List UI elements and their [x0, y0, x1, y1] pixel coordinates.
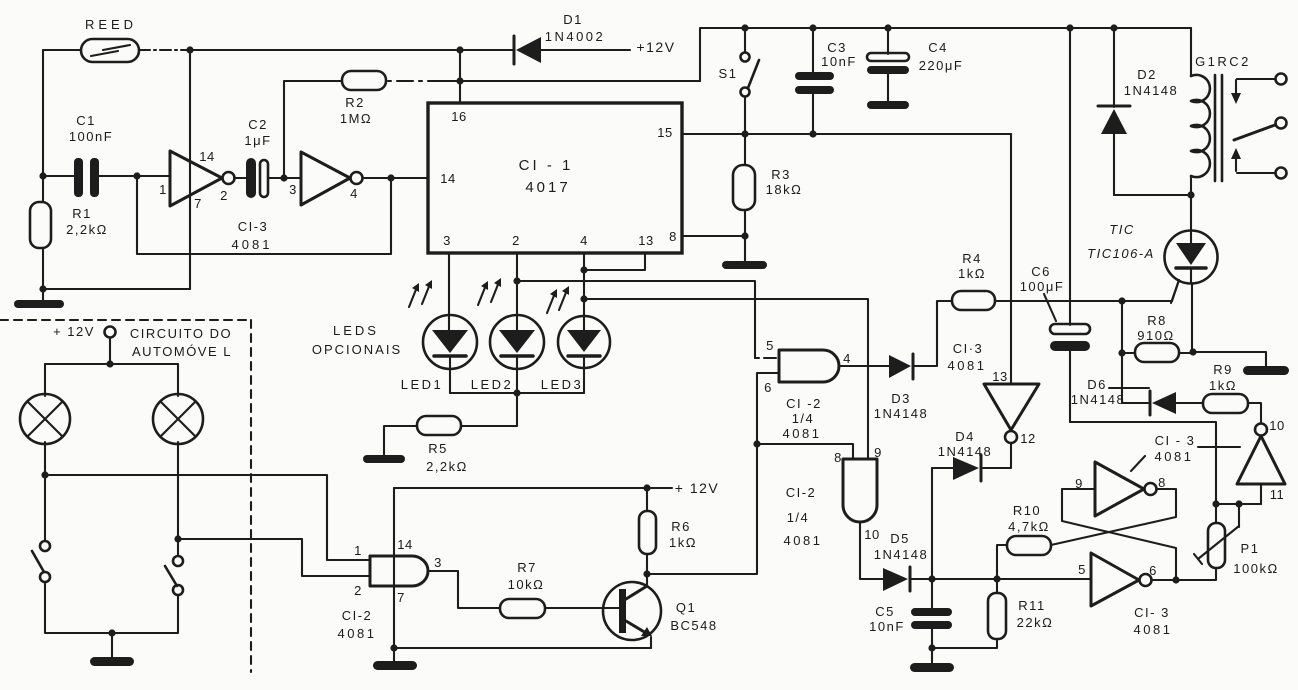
- svg-text:18kΩ: 18kΩ: [766, 182, 803, 197]
- svg-text:LED1: LED1: [401, 377, 444, 392]
- svg-text:4: 4: [843, 351, 851, 366]
- relay G1RC2 coil: [1191, 28, 1251, 230]
- svg-text:C2: C2: [248, 117, 268, 132]
- LED LED2: [471, 278, 544, 393]
- svg-text:R7: R7: [517, 560, 537, 575]
- inverter CI-3 pins 13,12: [984, 134, 1039, 446]
- wire pin2 line to gate input5: [517, 281, 755, 358]
- op-amp inverter CI-3 pin3-4: [289, 152, 362, 205]
- svg-text:6: 6: [1149, 563, 1157, 578]
- svg-text:R10: R10: [1013, 503, 1041, 518]
- svg-text:R6: R6: [671, 519, 691, 534]
- node cathode/R8: [1189, 348, 1196, 355]
- svg-text:1N4148: 1N4148: [874, 406, 929, 421]
- wire CI-1 pin2 to LED2: [516, 253, 518, 331]
- wire R4 to SCR gate node: [995, 300, 1172, 302]
- node relay/D2/SCR: [1187, 191, 1194, 198]
- svg-text:CI-3: CI-3: [238, 219, 269, 234]
- svg-text:910Ω: 910Ω: [1137, 328, 1174, 343]
- node R6 top: [643, 484, 650, 491]
- wire CI-1 pin3 to LED1: [448, 253, 450, 331]
- node C2 out: [280, 174, 287, 181]
- svg-text:D1: D1: [563, 12, 583, 27]
- svg-text:D4: D4: [955, 429, 975, 444]
- svg-text:1: 1: [354, 543, 362, 558]
- svg-text:6: 6: [764, 380, 772, 395]
- node pin4 branch: [580, 295, 587, 302]
- resistor R6: [639, 488, 697, 574]
- wire output8 cross-couple: [1051, 489, 1176, 545]
- wire lamp feed: [45, 363, 178, 365]
- svg-text:100nF: 100nF: [69, 129, 113, 144]
- ground under C4: [867, 101, 909, 109]
- svg-text:1: 1: [159, 182, 167, 197]
- wire bus to R5: [461, 393, 517, 426]
- wire D4 vertical: [931, 468, 933, 608]
- svg-text:R9: R9: [1213, 362, 1233, 377]
- wire collector feedback: [647, 373, 779, 574]
- svg-text:P1: P1: [1241, 541, 1260, 556]
- wire gnd stem: [393, 648, 395, 661]
- svg-text:R8: R8: [1147, 313, 1167, 328]
- svg-text:C3: C3: [827, 40, 847, 55]
- wire gate1 out to R7: [428, 571, 500, 608]
- node C4 top: [884, 24, 891, 31]
- node pin15/S1: [741, 130, 748, 137]
- node out6/latch: [1172, 576, 1179, 583]
- wire R5 to ground: [384, 426, 417, 455]
- svg-text:OPCIONAIS: OPCIONAIS: [312, 342, 402, 357]
- wire C6 branch lower: [1070, 351, 1216, 523]
- node collector: [643, 570, 650, 577]
- terminal +12V: [105, 327, 116, 338]
- svg-text:13: 13: [638, 233, 653, 248]
- svg-text:12: 12: [1020, 431, 1035, 446]
- wire pin16 drop: [459, 50, 461, 103]
- diode D1: [514, 12, 630, 64]
- node S1 top: [741, 24, 748, 31]
- node ground tee: [108, 629, 115, 636]
- svg-text:CI - 3: CI - 3: [1155, 433, 1196, 448]
- svg-text:22kΩ: 22kΩ: [1017, 615, 1054, 630]
- svg-text:BC548: BC548: [670, 618, 717, 633]
- wire R3 bottom: [744, 210, 746, 261]
- wire pin4 line to gate input9: [584, 299, 868, 459]
- svg-text:100μF: 100μF: [1020, 279, 1065, 294]
- node R8 left: [1118, 349, 1125, 356]
- svg-text:14: 14: [199, 149, 214, 164]
- svg-text:4081: 4081: [232, 237, 273, 252]
- resistor R11: [932, 579, 1053, 648]
- svg-text:1kΩ: 1kΩ: [1209, 378, 1237, 393]
- wire lamp1 down: [44, 442, 46, 541]
- wire bubble to C2: [234, 177, 247, 179]
- svg-text:C6: C6: [1031, 264, 1051, 279]
- wire top rail to D1: [190, 49, 514, 51]
- svg-text:CI -2: CI -2: [786, 396, 822, 411]
- dashed box CIRCUITO DO AUTOMOVEL: [0, 320, 251, 672]
- wire D4 left stub: [932, 467, 953, 469]
- ground under R1: [14, 300, 64, 308]
- resistor R9: [1203, 362, 1248, 413]
- wire R2 right dashed: [388, 80, 444, 82]
- ground under gate: [373, 661, 417, 670]
- svg-text:14: 14: [440, 171, 455, 186]
- wire pin13 jog: [584, 253, 645, 270]
- capacitor C2: [244, 117, 271, 198]
- resistor R4: [952, 251, 995, 310]
- svg-text:2,2kΩ: 2,2kΩ: [426, 459, 468, 474]
- svg-text:1μF: 1μF: [244, 133, 271, 148]
- inverter CI-3 pins 10,11: [1237, 418, 1285, 504]
- capacitor C5: [869, 604, 952, 663]
- svg-text:7: 7: [397, 590, 405, 605]
- node gate/R8: [1118, 297, 1125, 304]
- svg-text:4081: 4081: [1134, 622, 1173, 637]
- thyristor TIC106-A: [1087, 222, 1217, 303]
- LED LED1: [401, 280, 477, 393]
- resistor R7: [500, 560, 619, 618]
- svg-text:3: 3: [434, 555, 442, 570]
- svg-text:4081: 4081: [338, 626, 377, 641]
- ground right: [1243, 366, 1289, 375]
- svg-text:5: 5: [766, 338, 774, 353]
- svg-text:1N4148: 1N4148: [1124, 83, 1179, 98]
- svg-text:10: 10: [864, 527, 879, 542]
- svg-text:8: 8: [834, 450, 842, 465]
- wire output6 to P1 bottom: [1152, 568, 1216, 580]
- wire S1 to R3: [744, 97, 746, 165]
- node C3 bottom: [809, 130, 816, 137]
- node pin2 branch: [513, 277, 520, 284]
- svg-text:LED3: LED3: [541, 377, 584, 392]
- svg-text:2: 2: [220, 188, 228, 203]
- wire ground stem: [111, 633, 113, 657]
- diode D3: [874, 354, 929, 421]
- svg-text:16: 16: [451, 109, 466, 124]
- svg-text:7: 7: [194, 196, 202, 211]
- node D2 rail: [1110, 24, 1117, 31]
- node C1 tap: [39, 172, 46, 179]
- wire vertical through gate: [189, 50, 191, 289]
- relay contact bottom: [1231, 148, 1287, 179]
- lamp 2: [153, 364, 203, 444]
- wire LED cathode bus: [450, 392, 584, 394]
- wire D4 to inverter12: [981, 444, 1011, 468]
- wire dash into input5: [755, 357, 779, 359]
- svg-text:1N4148: 1N4148: [1071, 392, 1126, 407]
- svg-text:TIC: TIC: [1109, 222, 1134, 237]
- svg-text:1/4: 1/4: [792, 411, 815, 426]
- svg-text:S1: S1: [719, 66, 738, 81]
- relay core: [1214, 75, 1217, 181]
- wire +12V drop through gate: [393, 488, 395, 648]
- svg-text:LED2: LED2: [471, 377, 514, 392]
- AND gate CI-2 pins 1,2,3: [338, 537, 442, 641]
- wire D3 to R4: [913, 301, 952, 366]
- wire SCR cathode: [1192, 283, 1266, 366]
- node bottom-left corner: [39, 285, 46, 292]
- svg-text:14: 14: [397, 537, 412, 552]
- wire latch bottom: [1216, 503, 1261, 505]
- reed switch REED: [81, 17, 139, 62]
- svg-text:+ 12V: + 12V: [675, 480, 719, 496]
- svg-text:1kΩ: 1kΩ: [669, 535, 697, 550]
- wire +12V elbow to top rail: [700, 28, 1191, 81]
- wire top-left rail: [43, 49, 81, 51]
- op-amp inverter CI-3 pin1-2: [159, 149, 234, 211]
- svg-text:4081: 4081: [783, 426, 822, 441]
- svg-text:1N4148: 1N4148: [874, 547, 929, 562]
- svg-text:C1: C1: [76, 113, 96, 128]
- node LED bus: [513, 389, 520, 396]
- svg-text:R4: R4: [962, 251, 982, 266]
- wire dash-dot after reed: [139, 49, 192, 51]
- wire lamp2 sense to gate input2: [178, 539, 370, 576]
- node C5 bottom: [928, 644, 935, 651]
- capacitor C1: [43, 113, 170, 197]
- resistor R5: [417, 416, 468, 474]
- ground under lamps: [90, 657, 134, 666]
- diode D5: [874, 531, 929, 591]
- wire C2 to gate: [268, 177, 301, 179]
- AND gate CI-2 pins 8,9,10: [784, 445, 882, 548]
- relay contact middle: [1234, 118, 1287, 141]
- wire gate2 out to CI-1: [363, 177, 428, 179]
- svg-text:D3: D3: [891, 391, 911, 406]
- svg-text:1/4: 1/4: [787, 510, 810, 525]
- svg-text:10: 10: [1269, 418, 1284, 433]
- svg-text:+ 12V: + 12V: [53, 324, 95, 339]
- svg-text:4: 4: [350, 186, 358, 201]
- svg-text:R1: R1: [72, 206, 92, 221]
- resistor R1: [30, 202, 108, 248]
- svg-text:C4: C4: [928, 40, 948, 55]
- wire +12V mid rail: [394, 487, 672, 489]
- node pin8: [741, 232, 748, 239]
- wire R2 to pin16 node: [444, 80, 700, 82]
- svg-text:4081: 4081: [1155, 449, 1194, 464]
- svg-text:220μF: 220μF: [919, 58, 964, 73]
- wire switch bottoms to ground: [45, 582, 178, 633]
- wire lamp1 sense to gate input1: [45, 475, 370, 560]
- resistor R2: [340, 71, 386, 126]
- svg-text:3: 3: [443, 233, 451, 248]
- inverter CI-3 pins 5,6: [1078, 553, 1172, 637]
- wire left vertical: [42, 50, 44, 202]
- svg-text:4: 4: [580, 233, 588, 248]
- wire gate out10 to D5: [860, 522, 883, 579]
- svg-text:R11: R11: [1018, 598, 1045, 613]
- svg-text:13: 13: [992, 369, 1007, 384]
- wire pin15 rail: [682, 133, 1011, 135]
- svg-text:D2: D2: [1137, 67, 1157, 82]
- svg-text:R3: R3: [771, 167, 791, 182]
- node at reed right: [186, 46, 193, 53]
- svg-text:1MΩ: 1MΩ: [340, 111, 372, 126]
- wire up to R2: [284, 81, 342, 178]
- svg-text:4,7kΩ: 4,7kΩ: [1008, 519, 1050, 534]
- svg-text:1N4148: 1N4148: [938, 444, 993, 459]
- node feedback branch: [753, 440, 760, 447]
- potentiometer P1: [1194, 504, 1279, 576]
- svg-text:Q1: Q1: [676, 600, 696, 615]
- diode D2: [1098, 28, 1191, 195]
- node gate2 out: [387, 174, 394, 181]
- ground under C5: [910, 663, 954, 672]
- node pin7 ground: [390, 644, 397, 651]
- svg-text:15: 15: [657, 125, 672, 140]
- svg-text:CI-2: CI-2: [342, 608, 373, 623]
- wire feedback loop: [137, 176, 391, 254]
- wire branch to gate input8: [757, 444, 853, 459]
- svg-text:G1RC2: G1RC2: [1195, 54, 1251, 69]
- svg-text:11: 11: [1270, 487, 1285, 502]
- svg-text:D5: D5: [890, 531, 910, 546]
- wire R8 node vertical: [1121, 301, 1123, 403]
- wire lamp2 down: [177, 442, 179, 556]
- wire diag to SCR gate: [1172, 280, 1179, 301]
- svg-text:R5: R5: [428, 441, 448, 456]
- svg-text:+12V: +12V: [636, 39, 675, 55]
- svg-text:4081: 4081: [948, 358, 987, 373]
- capacitor C4: [867, 28, 963, 101]
- node lamp tee: [106, 360, 113, 367]
- svg-text:CI- 3: CI- 3: [1134, 605, 1170, 620]
- wire R9 to inverter10: [1248, 403, 1261, 423]
- inverter CI-3 pins 9,8: [1075, 462, 1166, 516]
- svg-text:8: 8: [669, 229, 677, 244]
- svg-text:R2: R2: [345, 95, 365, 110]
- svg-text:2,2kΩ: 2,2kΩ: [66, 222, 108, 237]
- wire terminal down: [109, 338, 111, 364]
- switch S1: [719, 28, 759, 97]
- capacitor C3: [795, 28, 857, 134]
- svg-text:D6: D6: [1087, 377, 1107, 392]
- svg-text:10kΩ: 10kΩ: [508, 577, 545, 592]
- node feedback tap: [133, 172, 140, 179]
- svg-text:LEDS: LEDS: [333, 323, 379, 338]
- wire input9 cross-couple: [1062, 489, 1176, 580]
- node C3 top: [809, 24, 816, 31]
- svg-text:1kΩ: 1kΩ: [958, 266, 986, 281]
- svg-text:4081: 4081: [784, 533, 823, 548]
- capacitor C6: [1020, 28, 1090, 351]
- wire pin8 stub: [682, 235, 745, 237]
- svg-text:CIRCUITO DO: CIRCUITO DO: [130, 326, 232, 341]
- svg-text:CI·3: CI·3: [953, 341, 984, 356]
- diode D6: [1071, 377, 1203, 415]
- wire D5 node line to inverter5: [910, 578, 1091, 580]
- wire bottom link: [43, 288, 190, 290]
- node pin16 top: [456, 46, 463, 53]
- svg-text:AUTOMÓVE L: AUTOMÓVE L: [132, 344, 232, 359]
- relay contact top: [1231, 74, 1287, 105]
- wire CI-1 pin4 to LED3: [583, 253, 585, 331]
- node pin16: [456, 77, 463, 84]
- AND gate CI-2 pins 5,6,4: [764, 338, 851, 441]
- svg-text:2: 2: [354, 583, 362, 598]
- svg-text:CI-2: CI-2: [786, 485, 817, 500]
- transistor Q1 BC548: [603, 574, 718, 648]
- switch lamp2: [165, 556, 183, 595]
- node C6 rail: [1066, 24, 1073, 31]
- ground under R3: [722, 261, 767, 269]
- wire R1 bottom: [42, 248, 44, 300]
- node lamp2 sense: [174, 535, 181, 542]
- node pin13 link: [580, 266, 587, 273]
- svg-text:5: 5: [1078, 562, 1086, 577]
- svg-text:2: 2: [512, 233, 520, 248]
- svg-text:9: 9: [874, 445, 882, 460]
- svg-text:100kΩ: 100kΩ: [1233, 561, 1278, 576]
- resistor R8: [1122, 313, 1193, 362]
- svg-text:4017: 4017: [525, 179, 570, 196]
- IC CI-1 4017: [428, 103, 682, 253]
- wire gate out4 to D3: [839, 365, 889, 367]
- resistor R10: [997, 503, 1051, 579]
- node P1 top: [1212, 500, 1219, 507]
- svg-text:3: 3: [289, 182, 297, 197]
- svg-text:CI - 1: CI - 1: [519, 157, 574, 174]
- resistor R3: [733, 165, 802, 210]
- svg-text:1N4002: 1N4002: [545, 29, 606, 44]
- lamp 1: [20, 364, 70, 444]
- svg-text:C5: C5: [875, 604, 895, 619]
- node wiper: [1235, 500, 1242, 507]
- LED LED3: [541, 286, 610, 393]
- ground under R5: [363, 455, 405, 463]
- svg-text:10nF: 10nF: [821, 54, 857, 69]
- node R10/R11: [993, 575, 1000, 582]
- wire emitter/pin7 ground line: [394, 647, 651, 649]
- node lamp1 sense: [41, 471, 48, 478]
- switch lamp1: [32, 541, 50, 582]
- node D4 drop: [928, 575, 935, 582]
- diode D4: [938, 429, 993, 481]
- svg-text:10nF: 10nF: [869, 619, 905, 634]
- svg-text:8: 8: [1158, 475, 1166, 490]
- svg-text:REED: REED: [85, 17, 137, 32]
- svg-text:TIC106-A: TIC106-A: [1087, 246, 1155, 261]
